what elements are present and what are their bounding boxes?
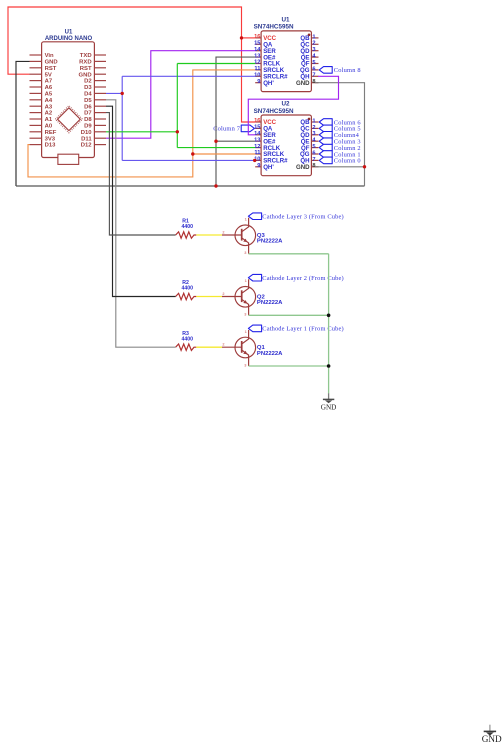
svg-text:GND: GND — [482, 734, 502, 744]
junction red VCC at U1 pin16 — [240, 36, 243, 39]
svg-text:Column 8: Column 8 — [334, 67, 361, 74]
svg-text:D13: D13 — [45, 143, 57, 149]
svg-text:4400: 4400 — [182, 336, 194, 342]
svg-text:13: 13 — [254, 137, 260, 143]
wire GND from U2 pin8 — [315, 166, 365, 168]
wire pale green vertical to GND — [328, 254, 330, 393]
svg-text:D4: D4 — [84, 92, 92, 98]
svg-text:D5: D5 — [84, 98, 92, 104]
svg-text:D3: D3 — [84, 85, 92, 91]
svg-text:A2: A2 — [45, 111, 53, 117]
svg-text:A1: A1 — [45, 117, 53, 123]
arduino right pins — [94, 55, 106, 145]
svg-text:D11: D11 — [81, 136, 92, 142]
svg-text:GND: GND — [321, 404, 337, 412]
resistor R1 4400 — [176, 219, 197, 239]
wire yellow R3 to Q1 base — [196, 346, 222, 348]
net flag Column 1 — [319, 151, 361, 159]
svg-text:3: 3 — [312, 131, 315, 137]
svg-text:RST: RST — [80, 66, 92, 72]
net flag Column 0 — [319, 157, 361, 165]
svg-text:15: 15 — [254, 41, 260, 47]
svg-text:8: 8 — [312, 79, 315, 85]
svg-text:PN2222A: PN2222A — [257, 300, 283, 306]
arduino nano U1 body — [42, 42, 95, 158]
svg-text:Column 7: Column 7 — [213, 126, 241, 133]
svg-text:A7: A7 — [45, 79, 53, 85]
svg-text:2: 2 — [312, 125, 315, 131]
U2 right pins 1-8 — [311, 122, 318, 167]
svg-text:16: 16 — [254, 34, 260, 40]
net flag Cathode Layer 3 (From Cube) — [248, 213, 343, 221]
svg-text:U1: U1 — [65, 30, 73, 36]
wire yellow R1 to Q3 base — [196, 234, 222, 236]
U1 right pins 1-8 — [311, 38, 318, 83]
wire emitter Q3 pale green — [249, 253, 329, 255]
svg-text:Cathode Layer 1 (From Cube): Cathode Layer 1 (From Cube) — [262, 326, 343, 333]
svg-text:1: 1 — [312, 118, 315, 124]
U2 right pin numbers — [312, 118, 316, 169]
svg-text:TXD: TXD — [80, 53, 92, 59]
svg-text:2: 2 — [312, 41, 315, 47]
svg-text:A3: A3 — [45, 104, 53, 110]
U2 left pin numbers — [254, 118, 261, 169]
svg-text:13: 13 — [254, 53, 260, 59]
wire OE# branch to U2 pin13 — [216, 140, 255, 142]
svg-text:SN74HC595N: SN74HC595N — [254, 24, 294, 31]
svg-text:A6: A6 — [45, 85, 53, 91]
wire OE# gray net U1 pin13 — [216, 57, 255, 186]
svg-text:1: 1 — [312, 34, 315, 40]
IC U1 SN74HC595N body — [261, 31, 311, 92]
wire D4 blue net to SRCLR# pins — [106, 76, 255, 160]
junction OE# branch — [214, 140, 217, 143]
svg-text:3: 3 — [312, 47, 315, 53]
svg-text:12: 12 — [254, 144, 260, 150]
svg-text:Cathode Layer 3 (From Cube): Cathode Layer 3 (From Cube) — [262, 214, 343, 221]
arduino usb connector — [58, 154, 79, 164]
arduino U1 title — [45, 30, 93, 42]
svg-text:D2: D2 — [84, 79, 92, 85]
svg-text:D8: D8 — [84, 117, 92, 123]
svg-text:D10: D10 — [81, 130, 93, 136]
svg-text:3V3: 3V3 — [45, 136, 56, 142]
svg-text:7: 7 — [312, 73, 315, 79]
U1 title — [254, 16, 294, 30]
svg-text:D12: D12 — [81, 143, 93, 149]
U2 left pins 16-9 — [255, 122, 261, 167]
wire D13 orange net to SRCLK pins — [28, 70, 255, 177]
net flag Column 2 — [319, 144, 361, 152]
svg-text:ARDUINO NANO: ARDUINO NANO — [45, 36, 93, 42]
svg-text:4400: 4400 — [182, 224, 194, 230]
Q1 pin numbers — [222, 329, 247, 368]
net flag Column 8 — [319, 67, 361, 75]
wire GND rail bottom — [16, 185, 365, 187]
svg-text:14: 14 — [254, 47, 261, 53]
svg-text:RST: RST — [45, 66, 57, 72]
wire D6 to R2 — [106, 106, 176, 296]
wire GND from U1 pin8 — [315, 83, 365, 186]
wire yellow R2 to Q2 base — [196, 296, 222, 298]
U2 title — [254, 100, 294, 114]
wire emitter Q1 pale green — [249, 365, 329, 367]
svg-text:U1: U1 — [281, 16, 290, 23]
svg-text:16: 16 — [254, 118, 260, 124]
svg-text:12: 12 — [254, 60, 260, 66]
arduino right pin labels — [79, 53, 93, 149]
transistor Q3 PN2222A — [222, 218, 283, 254]
wire D7 to R1 — [106, 113, 176, 235]
svg-text:GND: GND — [45, 60, 58, 66]
resistor R2 4400 — [176, 280, 197, 300]
svg-text:Cathode Layer 2 (From Cube): Cathode Layer 2 (From Cube) — [262, 275, 343, 282]
junction green RCLK — [176, 130, 179, 133]
svg-text:5: 5 — [312, 60, 315, 66]
svg-text:PN2222A: PN2222A — [257, 351, 283, 357]
svg-text:6: 6 — [312, 150, 315, 156]
svg-text:5V: 5V — [45, 72, 52, 78]
svg-text:6: 6 — [312, 66, 315, 72]
wire red branch to U1 VCC pin16 — [242, 37, 256, 39]
svg-text:10: 10 — [254, 73, 260, 79]
net flag Cathode Layer 1 (From Cube) — [248, 325, 343, 333]
Q2 pin numbers — [222, 278, 247, 317]
wire emitter Q2 pale green — [249, 314, 329, 316]
svg-text:D7: D7 — [84, 111, 92, 117]
transistor Q2 PN2222A — [222, 279, 283, 315]
svg-text:Column 0: Column 0 — [334, 158, 361, 165]
net flag Column4 — [319, 132, 359, 140]
net flag Column 6 — [319, 119, 361, 127]
junction orange SRCLK — [191, 152, 194, 155]
U2 pin labels — [263, 119, 310, 171]
U1 right pin numbers — [312, 34, 316, 85]
svg-text:GND: GND — [296, 164, 310, 171]
net flag Cathode Layer 2 (From Cube) — [248, 274, 343, 282]
junction Q2 emitter — [327, 314, 331, 318]
IC U2 SN74HC595N body — [261, 115, 311, 176]
arduino left pin labels — [45, 53, 58, 149]
wire purple daisy chain U1 QH to U2 SER — [248, 76, 338, 135]
svg-text:PN2222A: PN2222A — [257, 239, 283, 245]
U1 left pin numbers — [254, 34, 261, 85]
wire GND black: Arduino GND down/around — [16, 61, 30, 186]
Q3 pin numbers — [222, 217, 247, 256]
ground symbol bottom right — [482, 725, 502, 744]
resistor R3 4400 — [176, 331, 197, 351]
svg-text:RXD: RXD — [79, 60, 91, 66]
svg-text:A0: A0 — [45, 124, 53, 130]
svg-text:D6: D6 — [84, 104, 92, 110]
svg-text:SN74HC595N: SN74HC595N — [254, 108, 294, 115]
arduino chip diamond — [55, 106, 82, 133]
svg-text:QH': QH' — [263, 164, 274, 171]
svg-text:U2: U2 — [281, 100, 290, 107]
svg-text:7: 7 — [312, 157, 315, 163]
wire D10 green net to RCLK pins — [106, 64, 255, 148]
svg-text:9: 9 — [257, 163, 260, 169]
svg-text:14: 14 — [254, 131, 261, 137]
junction Q1 emitter — [327, 364, 331, 368]
net flag Column 5 — [319, 125, 361, 133]
svg-text:A5: A5 — [45, 92, 53, 98]
wire D5 to R3 — [106, 100, 176, 347]
wire D11 purple net to U1 SER — [106, 51, 255, 139]
svg-text:REF: REF — [45, 130, 57, 136]
svg-text:QH': QH' — [263, 80, 274, 87]
svg-text:11: 11 — [254, 150, 260, 156]
junction GND pin8 — [363, 165, 366, 168]
wire orange branch to U2 pin11 — [193, 153, 255, 155]
svg-text:A4: A4 — [45, 98, 53, 104]
arduino left pins — [30, 55, 42, 145]
svg-text:8: 8 — [312, 163, 315, 169]
svg-text:D9: D9 — [84, 124, 92, 130]
junction blue at U2 pin10 — [253, 159, 256, 162]
junction OE# to GND rail — [214, 184, 217, 187]
svg-text:GND: GND — [79, 72, 92, 78]
svg-text:11: 11 — [254, 66, 260, 72]
svg-text:15: 15 — [254, 125, 260, 131]
transistor Q1 PN2222A — [222, 330, 283, 366]
svg-text:Vin: Vin — [45, 53, 54, 59]
svg-text:5: 5 — [312, 144, 315, 150]
svg-text:GND: GND — [296, 80, 310, 87]
junction blue D4 — [121, 92, 124, 95]
net flag Column 3 — [319, 138, 361, 146]
svg-text:9: 9 — [257, 79, 260, 85]
svg-text:4400: 4400 — [182, 286, 194, 292]
U1 pin labels — [263, 35, 310, 87]
U1 left pins 16-9 — [255, 38, 261, 83]
wire 5V red net: Arduino 5V to U1/U2 VCC — [8, 7, 255, 122]
net flag Column 7 — [213, 125, 254, 133]
ground symbol transistor rail — [321, 393, 337, 411]
